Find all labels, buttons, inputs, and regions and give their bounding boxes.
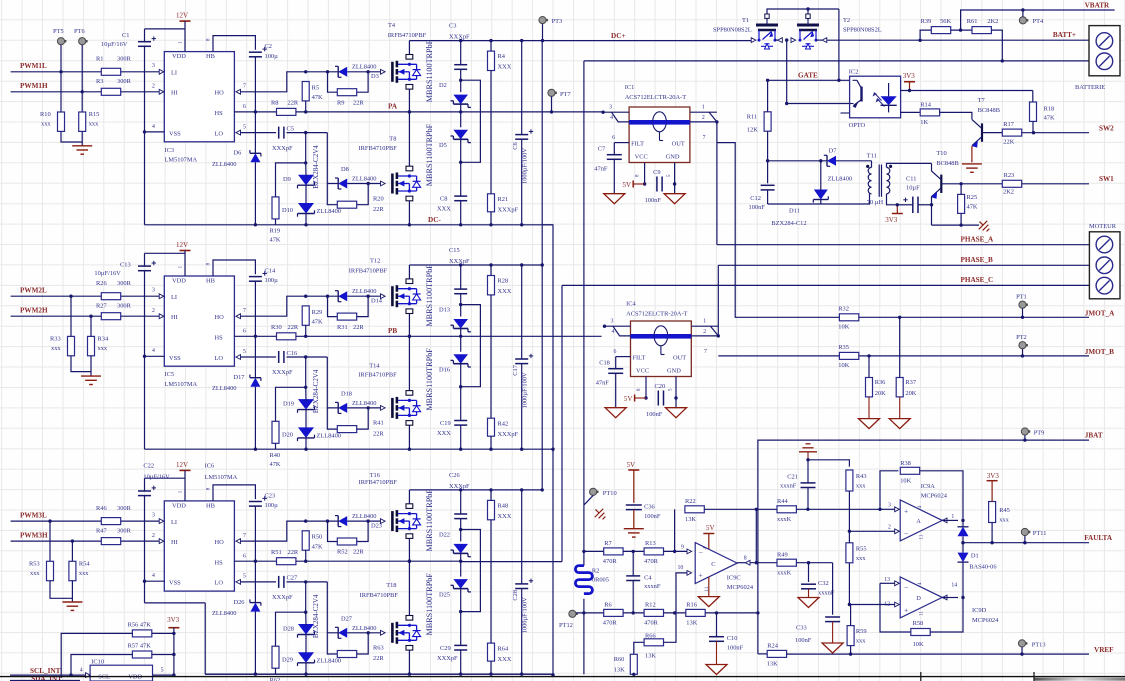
- svg-text:R25: R25: [967, 194, 978, 201]
- svg-text:R3: R3: [96, 78, 103, 85]
- svg-text:BATTERIE: BATTERIE: [1075, 84, 1105, 91]
- svg-text:xxx: xxx: [30, 570, 40, 577]
- svg-text:xxxnF: xxxnF: [644, 583, 661, 590]
- diode D9: [283, 175, 315, 189]
- svg-text:IRFB4710PBF: IRFB4710PBF: [359, 145, 398, 152]
- svg-text:R8: R8: [271, 100, 278, 107]
- wire: [327, 357, 338, 408]
- svg-text:MOTEUR: MOTEUR: [1089, 223, 1117, 230]
- svg-text:MBRS1100TRPbF: MBRS1100TRPbF: [425, 348, 434, 411]
- net to PHASE_B: [717, 265, 719, 336]
- wire: [899, 317, 901, 377]
- svg-text:10K: 10K: [838, 362, 849, 369]
- svg-text:IC9C: IC9C: [727, 575, 741, 582]
- ground: [604, 194, 625, 204]
- wire: [1021, 647, 1023, 654]
- svg-text:D26: D26: [234, 599, 245, 606]
- svg-text:5: 5: [243, 349, 246, 355]
- power 5V: [632, 181, 634, 188]
- svg-text:70 µH: 70 µH: [867, 199, 884, 206]
- testpoint PT9: [1021, 428, 1028, 435]
- svg-text:100µ: 100µ: [265, 53, 279, 60]
- svg-text:ZLL8400: ZLL8400: [352, 513, 377, 520]
- svg-text:T4: T4: [388, 22, 396, 29]
- wire: [868, 356, 870, 378]
- svg-text:XXX: XXX: [498, 288, 512, 295]
- wire: [849, 604, 894, 606]
- pin 5 arrow: [236, 130, 241, 135]
- wire source: [408, 89, 410, 112]
- wire: [767, 80, 769, 112]
- svg-text:MBRS1100TRPbF: MBRS1100TRPbF: [425, 573, 434, 636]
- svg-text:R15: R15: [89, 111, 100, 118]
- svg-text:13K: 13K: [614, 667, 625, 674]
- label T1 pkg: [713, 27, 752, 34]
- svg-text:ZLL8400: ZLL8400: [317, 433, 342, 440]
- junction: [366, 295, 369, 298]
- svg-text:C7: C7: [598, 146, 606, 153]
- svg-text:DC-: DC-: [428, 216, 441, 224]
- wire: [347, 295, 380, 297]
- resistor R47: [96, 527, 132, 544]
- wire LO: [241, 356, 277, 358]
- wire: [305, 387, 307, 400]
- svg-text:C: C: [711, 561, 715, 568]
- pin 7 arrow: [236, 314, 241, 319]
- pin 9 arrow: [687, 549, 692, 554]
- resistor R21: [488, 194, 519, 214]
- wire VSS jog: [145, 602, 206, 604]
- junction: [1021, 8, 1024, 11]
- svg-text:22R: 22R: [373, 430, 384, 437]
- svg-text:22K: 22K: [1003, 139, 1014, 146]
- wire FILT: [614, 142, 629, 144]
- svg-text:470R: 470R: [644, 558, 659, 565]
- svg-text:HS: HS: [215, 110, 224, 117]
- svg-text:ZLL8400: ZLL8400: [352, 625, 377, 632]
- svg-text:8: 8: [744, 556, 747, 562]
- wire: [460, 294, 462, 317]
- junction: [806, 7, 809, 10]
- svg-text:1: 1: [951, 514, 954, 520]
- wire: [357, 296, 368, 316]
- pin 7 arrow: [236, 89, 241, 94]
- wire: [490, 661, 492, 674]
- wire: [347, 632, 380, 634]
- svg-text:C18: C18: [599, 360, 610, 367]
- wire: [70, 296, 72, 336]
- junction: [673, 182, 676, 185]
- svg-text:R45: R45: [999, 507, 1010, 514]
- resistor R28: [488, 276, 512, 295]
- junction: [1021, 316, 1024, 319]
- svg-text:R64: R64: [498, 645, 509, 652]
- svg-text:C6: C6: [512, 142, 519, 149]
- wire HO: [241, 296, 306, 316]
- wire: [460, 69, 462, 92]
- wire: [490, 265, 492, 276]
- svg-text:R44: R44: [777, 498, 788, 505]
- svg-text:XXX: XXX: [498, 513, 512, 520]
- capacitor C1: [101, 32, 156, 48]
- diode D7: [824, 148, 852, 183]
- svg-text:7: 7: [243, 308, 246, 314]
- svg-text:R28: R28: [498, 277, 509, 284]
- wire: [357, 184, 369, 205]
- diode D19: [283, 399, 315, 413]
- net PWM1L wire: [11, 71, 160, 73]
- resistor R11: [747, 112, 771, 134]
- gate pin arrow: [381, 181, 386, 186]
- svg-text:300R: 300R: [117, 302, 132, 309]
- wire: [254, 162, 256, 225]
- ground: [664, 194, 685, 204]
- junction: [326, 70, 329, 73]
- svg-text:ZLL8400: ZLL8400: [317, 208, 342, 215]
- svg-text:300R: 300R: [117, 527, 132, 534]
- svg-text:22R: 22R: [288, 549, 299, 556]
- svg-text:13K: 13K: [767, 661, 778, 668]
- wire VSS down: [144, 581, 146, 603]
- wire: [1022, 10, 1024, 17]
- svg-text:PHASE_A: PHASE_A: [961, 236, 995, 244]
- svg-text:BC848B: BC848B: [978, 107, 1000, 114]
- junction: [848, 603, 851, 606]
- svg-text:R55: R55: [856, 546, 867, 553]
- label T1: [742, 17, 749, 24]
- svg-text:XXXpF: XXXpF: [272, 369, 293, 376]
- resistor R23: [1002, 172, 1021, 196]
- pin 14 arrow: [942, 595, 947, 600]
- svg-text:C32: C32: [818, 580, 829, 587]
- svg-text:3V3: 3V3: [167, 616, 180, 624]
- svg-text:T7: T7: [978, 97, 986, 104]
- resistor R48: [488, 500, 512, 519]
- svg-text:HO: HO: [215, 90, 225, 97]
- svg-text:9: 9: [681, 545, 684, 551]
- pin arrow: [778, 38, 783, 43]
- svg-text:R58: R58: [913, 620, 924, 627]
- svg-text:IC3: IC3: [165, 147, 175, 154]
- testpoint PT2: [1019, 342, 1026, 349]
- junction: [304, 223, 307, 226]
- wire: [61, 633, 132, 678]
- resistor R44: [777, 498, 796, 523]
- wire: [542, 24, 544, 41]
- svg-text:7: 7: [704, 349, 707, 355]
- svg-text:470R: 470R: [603, 619, 618, 626]
- svg-text:2: 2: [702, 115, 705, 121]
- resistor R31: [337, 313, 364, 331]
- wire emitter: [931, 197, 933, 225]
- wire: [152, 654, 174, 656]
- junction: [71, 539, 74, 542]
- svg-text:R21: R21: [498, 196, 509, 203]
- wire FILT: [616, 356, 631, 358]
- svg-text:R1: R1: [96, 56, 103, 63]
- resistor R42: [488, 418, 519, 438]
- sheet border: [0, 676, 1125, 678]
- svg-text:R27: R27: [96, 302, 107, 309]
- power 5V: [634, 395, 636, 402]
- testpoint PT5: [57, 38, 64, 45]
- svg-text:100nF: 100nF: [644, 513, 661, 520]
- svg-text:T8: T8: [389, 135, 396, 142]
- op-amp IC9C: [695, 543, 737, 584]
- wire: [816, 39, 822, 41]
- junction: [254, 335, 257, 338]
- svg-text:BZX284-C2V4: BZX284-C2V4: [312, 369, 320, 413]
- ground: [698, 597, 719, 607]
- svg-text:GATE: GATE: [798, 71, 818, 79]
- wire: [90, 372, 92, 377]
- wire: [145, 477, 186, 479]
- junction: [459, 110, 462, 113]
- wire: [357, 72, 368, 92]
- svg-text:C1: C1: [122, 32, 129, 39]
- junction: [990, 541, 993, 544]
- wire: [287, 581, 328, 583]
- transistor T4: [388, 22, 427, 89]
- svg-text:R38: R38: [900, 460, 911, 467]
- wire: [144, 271, 146, 357]
- wire: [305, 185, 307, 204]
- wire: [920, 471, 963, 521]
- wire: [960, 213, 962, 225]
- junction: [849, 652, 852, 655]
- wire: [306, 520, 339, 522]
- wire VSS down: [144, 356, 146, 449]
- svg-text:PHASE_C: PHASE_C: [961, 276, 994, 284]
- svg-text:D27: D27: [341, 615, 353, 622]
- net DC+ rail ch3: [409, 489, 542, 491]
- svg-text:47K: 47K: [312, 318, 323, 325]
- pin 2 HI: [159, 539, 164, 544]
- diode D16: [439, 354, 471, 373]
- diode D20: [282, 427, 341, 441]
- wire: [305, 663, 307, 674]
- diode D13: [439, 306, 471, 331]
- svg-text:12K: 12K: [747, 127, 758, 134]
- svg-text:LM5107MA: LM5107MA: [165, 381, 198, 388]
- junction: [408, 560, 411, 563]
- svg-text:100µ: 100µ: [265, 277, 279, 284]
- diode D18: [335, 390, 377, 413]
- net DC- ch3 east: [205, 673, 553, 675]
- svg-text:R62: R62: [270, 677, 281, 681]
- wire HS: [234, 560, 276, 562]
- wire: [275, 443, 277, 449]
- junction: [366, 70, 369, 73]
- svg-text:IRFB4710PBF: IRFB4710PBF: [360, 592, 399, 599]
- pin 3 LI: [159, 294, 164, 299]
- wire: [615, 373, 617, 407]
- net PWM2H wire: [11, 315, 160, 317]
- svg-text:GND: GND: [667, 368, 681, 375]
- wire: [880, 471, 898, 510]
- svg-text:12V: 12V: [176, 12, 188, 20]
- svg-text:C22: C22: [143, 463, 154, 470]
- wire: [490, 41, 492, 52]
- svg-text:47nF: 47nF: [596, 380, 610, 387]
- wire: [461, 530, 481, 612]
- wire: [204, 603, 206, 674]
- resistor R4: [488, 51, 512, 70]
- wire: [328, 296, 338, 316]
- svg-text:IRFB4710PBF: IRFB4710PBF: [349, 267, 388, 274]
- wire: [152, 632, 174, 634]
- resistor R53: [29, 560, 54, 580]
- svg-text:C16: C16: [287, 350, 298, 357]
- wire: [807, 9, 809, 14]
- testpoint PT11: [1021, 528, 1028, 535]
- junction: [304, 70, 307, 73]
- net BATT+ wire: [827, 39, 1089, 41]
- svg-text:xxx: xxx: [856, 483, 866, 490]
- svg-text:−: −: [904, 529, 908, 538]
- wire pin2: [691, 335, 718, 337]
- net PA rail: [296, 111, 461, 113]
- resistor R3: [96, 78, 132, 95]
- svg-text:HS: HS: [215, 334, 224, 341]
- wire: [490, 490, 492, 501]
- wire: [306, 71, 339, 73]
- svg-text:−: −: [904, 583, 908, 592]
- svg-text:LI: LI: [171, 294, 177, 301]
- junction: [520, 223, 523, 226]
- wire: [327, 633, 337, 654]
- ground: [889, 419, 910, 429]
- resistor R22: [685, 498, 704, 523]
- wire: [737, 562, 745, 564]
- wire: [632, 581, 634, 613]
- svg-text:R41: R41: [373, 420, 384, 427]
- wire: [962, 536, 964, 542]
- power 12V: [180, 250, 191, 252]
- junction: [48, 519, 51, 522]
- wire: [887, 194, 898, 205]
- svg-text:PWM3H: PWM3H: [20, 531, 48, 539]
- svg-text:XXXpF: XXXpF: [449, 34, 470, 41]
- pin 7 arrow: [236, 539, 241, 544]
- op-amp IC9D: [900, 577, 942, 618]
- svg-text:ZLL8400: ZLL8400: [212, 161, 237, 168]
- net FAULTA wire: [963, 542, 1089, 544]
- svg-text:7: 7: [703, 135, 706, 141]
- svg-text:C19: C19: [440, 420, 451, 427]
- svg-text:C36: C36: [644, 504, 655, 511]
- wire: [880, 508, 895, 510]
- svg-text:3: 3: [152, 63, 155, 69]
- svg-text:GND: GND: [666, 154, 680, 161]
- svg-text:56K: 56K: [940, 18, 951, 25]
- wire: [347, 183, 380, 185]
- wire: [254, 612, 256, 675]
- svg-text:PT11: PT11: [1033, 530, 1047, 537]
- wire: [49, 521, 51, 561]
- wire: [144, 496, 146, 582]
- svg-text:R66: R66: [645, 633, 656, 640]
- transistor T10: [931, 150, 958, 199]
- junction: [367, 182, 370, 185]
- resistor R63: [337, 645, 384, 663]
- svg-text:MBRS1100TRPbF: MBRS1100TRPbF: [425, 489, 434, 552]
- gate pin arrow: [381, 294, 386, 299]
- wire: [460, 139, 462, 195]
- wire drain: [408, 265, 410, 279]
- junction: [254, 223, 257, 226]
- diode D3: [335, 64, 379, 81]
- wire pin4: [613, 326, 631, 336]
- transistor T14: [358, 363, 420, 426]
- svg-text:HO: HO: [215, 539, 225, 546]
- wire: [61, 131, 82, 142]
- gate driver IC6: [164, 501, 234, 591]
- junction: [304, 386, 307, 389]
- svg-text:JMOT_B: JMOT_B: [1085, 348, 1114, 356]
- wire: [920, 30, 931, 40]
- pin 3 LI: [159, 519, 164, 524]
- wire: [674, 509, 676, 551]
- wire: [305, 612, 307, 625]
- wire: [144, 478, 146, 491]
- svg-text:0R005: 0R005: [592, 576, 609, 583]
- svg-text:T12: T12: [370, 258, 380, 265]
- resistor R61: [967, 18, 999, 34]
- svg-text:R48: R48: [498, 502, 509, 509]
- net PWM1H wire: [11, 91, 160, 93]
- wire: [942, 597, 958, 599]
- wire: [932, 224, 980, 226]
- wire: [145, 252, 186, 254]
- resistor R35: [838, 344, 859, 369]
- svg-text:R40: R40: [270, 452, 281, 459]
- resistor R10: [40, 111, 65, 131]
- junction: [459, 385, 462, 388]
- wire VCC: [644, 163, 646, 185]
- wire: [460, 490, 462, 514]
- wire VCC: [645, 377, 647, 399]
- pin arrow: [751, 38, 756, 43]
- wire: [50, 581, 72, 599]
- svg-text:R23: R23: [1004, 172, 1015, 179]
- ground: [666, 408, 687, 418]
- wire: [962, 543, 964, 553]
- net DC+ rail ch2: [409, 264, 542, 266]
- gate pin arrow: [381, 630, 386, 635]
- junction: [898, 316, 901, 319]
- ground: [72, 145, 92, 147]
- wire source: [408, 201, 410, 225]
- wire: [305, 214, 307, 225]
- junction: [601, 111, 604, 114]
- svg-text:HB: HB: [206, 502, 215, 509]
- svg-text:20K: 20K: [905, 390, 916, 397]
- wire: [613, 159, 615, 193]
- diode D2: [439, 82, 471, 107]
- svg-text:HI: HI: [171, 314, 178, 321]
- svg-text:BC848B: BC848B: [936, 160, 958, 167]
- wire: [144, 253, 146, 266]
- svg-text:xxx: xxx: [856, 555, 866, 562]
- wire: [836, 160, 872, 162]
- svg-text:C23: C23: [265, 492, 276, 499]
- svg-text:10K: 10K: [838, 323, 849, 330]
- wire: [254, 281, 256, 336]
- svg-text:6: 6: [243, 554, 246, 560]
- svg-text:10µF/16V: 10µF/16V: [143, 473, 170, 480]
- capacitor C23: [249, 492, 278, 509]
